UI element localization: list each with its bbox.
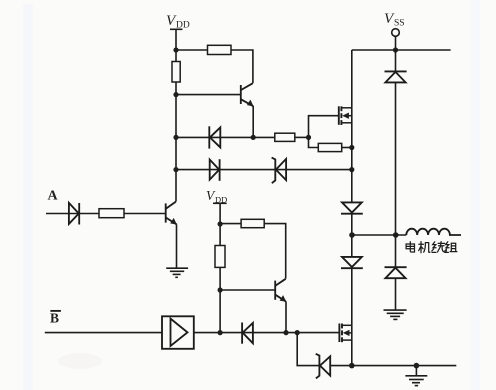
- wire to M1 gate: [309, 116, 339, 138]
- wire bottom bus: [352, 365, 457, 367]
- power rail R2: wire VSS diode: [395, 83, 397, 268]
- wire ground drop: [415, 366, 417, 376]
- zener Z2: [316, 354, 331, 379]
- node bottom ground: [414, 363, 420, 369]
- node rail R4: [349, 145, 354, 150]
- node motor left: [349, 232, 355, 238]
- wire R1 to Q1 collector: [231, 50, 253, 83]
- node VSS: [393, 47, 398, 52]
- wire rail L1 upper: [175, 29, 177, 61]
- wire Q1 emitter down: [252, 106, 254, 137]
- diode D8: [385, 267, 407, 278]
- node L2-top: [218, 221, 223, 226]
- diode D7: [385, 71, 407, 82]
- wire Q1 base: [176, 94, 241, 96]
- label motor winding text: [406, 242, 457, 253]
- diode D6: [341, 257, 363, 268]
- wire L2 to R6: [220, 223, 241, 225]
- diode D4: [242, 323, 253, 344]
- wire row1 left: [176, 136, 275, 138]
- inductor L1 motor winding: [406, 229, 461, 235]
- wire rail L2 top: [219, 203, 221, 245]
- node B emitter: [283, 330, 288, 335]
- wire D8 to ground: [395, 278, 397, 310]
- wire rail L2 bottom: [219, 267, 221, 332]
- node L1-top: [173, 47, 178, 52]
- wire zener drop: [297, 333, 319, 366]
- wire VSS down: [395, 36, 397, 50]
- node motor right: [393, 232, 399, 238]
- scan margin strip right: [470, 0, 480, 390]
- wire rail R1 bottom: [351, 325, 353, 365]
- resistor R6: [241, 219, 264, 227]
- resistor R2: [172, 62, 180, 83]
- buffer U1 box: [162, 316, 194, 349]
- node row1 emitter: [251, 135, 256, 140]
- wire rail R1 mid: [351, 108, 353, 203]
- node B zener tap: [295, 330, 300, 335]
- svg-text:A: A: [48, 189, 59, 204]
- node L1-row1: [173, 135, 178, 140]
- transistor Q3: [275, 279, 286, 302]
- glyph rao: [432, 242, 447, 253]
- VDD2 terminal tick: [213, 202, 227, 204]
- resistor R1: [208, 45, 232, 54]
- resistor R4: [318, 143, 341, 151]
- node L2-base: [218, 287, 223, 292]
- glyph ji: [419, 242, 430, 253]
- wire Q2 emitter to ground: [176, 224, 178, 268]
- power label VDD2: [206, 188, 227, 205]
- faint smudge: [58, 353, 102, 369]
- wire rail R1 top: [351, 50, 353, 108]
- label B bar: [50, 311, 59, 326]
- diode D3: [69, 203, 79, 225]
- wire rail R1 to M2: [351, 268, 353, 325]
- wire node to D7: [395, 50, 397, 71]
- wire row1 right: [295, 136, 309, 138]
- VDD1 terminal tick: [170, 28, 183, 30]
- diode D5: [341, 202, 363, 213]
- buffer U1 triangle: [171, 319, 188, 346]
- node L1-base: [173, 92, 178, 97]
- resistor R5: [99, 209, 124, 218]
- node row1 tap: [306, 135, 311, 140]
- wire rail L1 lower: [175, 82, 177, 202]
- node bottom rail: [349, 363, 355, 369]
- diode D2: [210, 159, 220, 181]
- svg-text:B: B: [50, 311, 59, 326]
- wire motor row: [352, 234, 406, 236]
- wire top bus: [352, 49, 451, 51]
- node L1-row2: [173, 167, 178, 172]
- wire row2: [176, 169, 352, 171]
- svg-text:SS: SS: [394, 19, 405, 29]
- wire to R4: [309, 137, 319, 147]
- wire R4 to rail: [342, 147, 352, 149]
- wire R6 to Q3 collector: [264, 224, 286, 279]
- power label VSS: [384, 11, 405, 29]
- wire buffer out: [194, 332, 340, 334]
- scan margin strip left: [23, 4, 33, 390]
- B overline: [50, 310, 61, 312]
- node B rail L2: [218, 330, 223, 335]
- diode D1: [209, 126, 220, 148]
- zener Z1: [272, 158, 287, 184]
- mosfet M1: [339, 106, 352, 125]
- wire R5 to Q2 base: [124, 213, 166, 215]
- glyph zu: [445, 242, 457, 253]
- wire B input: [45, 332, 162, 334]
- power label VDD1: [166, 13, 190, 31]
- ground GND3: [405, 376, 427, 386]
- transistor Q1: [241, 83, 254, 106]
- ground GND1: [166, 268, 188, 277]
- wire Q3 base: [220, 289, 275, 291]
- ground GND2: [384, 310, 407, 319]
- mosfet M2: [339, 324, 351, 343]
- VSS terminal circle: [392, 29, 400, 37]
- resistor R7: [215, 246, 225, 268]
- resistor R3: [275, 133, 295, 141]
- wire zener to rail: [330, 365, 352, 367]
- wire A input: [46, 213, 99, 215]
- transistor Q2: [166, 202, 177, 225]
- wire top row to R1: [176, 49, 208, 51]
- glyph dian: [406, 242, 414, 252]
- wire Q3 emitter down: [285, 302, 287, 333]
- wire rail R1 to motor node: [351, 214, 353, 257]
- node rail row2: [349, 167, 354, 172]
